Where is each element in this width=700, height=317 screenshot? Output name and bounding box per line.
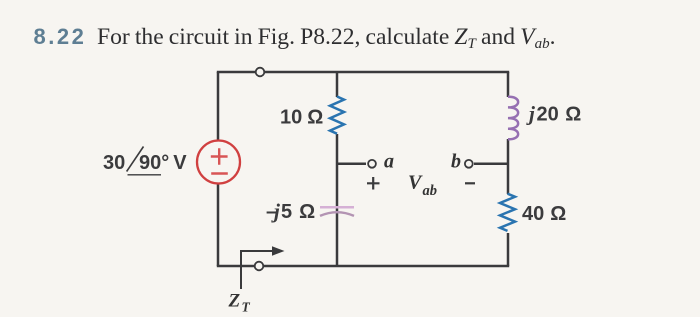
wire right (j20ohm / 40ohm branch) xyxy=(507,72,510,266)
inductor j20ohm xyxy=(508,97,518,139)
terminal node (bottom) xyxy=(255,262,264,271)
wire stub from node b xyxy=(474,163,508,166)
title text: 8.22 For the circuit in Fig. P8.22, calculate ZT and Vab. xyxy=(34,24,556,52)
wire left (source branch) xyxy=(217,72,220,266)
polarity - at node b xyxy=(465,182,475,184)
svg-text:Z: Z xyxy=(228,291,241,312)
svg-text:10 Ω: 10 Ω xyxy=(280,107,323,129)
node a terminal xyxy=(368,160,376,168)
svg-text:40 Ω: 40 Ω xyxy=(522,203,566,225)
wire bottom (return node) xyxy=(217,265,509,268)
svg-text:a: a xyxy=(384,151,394,173)
wire middle (10ohm / -j5ohm branch) xyxy=(336,72,339,266)
svg-text:V: V xyxy=(408,172,423,194)
voltage source VS 30&#8736;90&#176; V xyxy=(197,141,240,184)
ZT arrow (input impedance) xyxy=(241,246,285,289)
svg-text:For the circuit in Fig. P8.22,: For the circuit in Fig. P8.22, calculate… xyxy=(97,24,555,52)
svg-text:ab: ab xyxy=(423,183,438,199)
svg-text:T: T xyxy=(242,300,251,315)
polarity + at node a xyxy=(367,177,380,190)
resistor 40ohm xyxy=(500,194,515,231)
svg-text:90° V: 90° V xyxy=(139,152,187,174)
svg-text:5 Ω: 5 Ω xyxy=(281,201,315,223)
svg-text:b: b xyxy=(451,151,461,173)
label 30&#8736;90&#176; V xyxy=(103,147,187,175)
capacitor -j5ohm xyxy=(320,207,354,216)
svg-text:20 Ω: 20 Ω xyxy=(537,104,582,126)
resistor 10ohm xyxy=(330,97,344,134)
svg-text:8.22: 8.22 xyxy=(34,24,87,49)
wire top (node from source to right branch) xyxy=(217,71,509,74)
terminal node (top) xyxy=(256,68,265,77)
wire stub to node a xyxy=(337,163,366,166)
svg-text:30: 30 xyxy=(103,152,125,174)
node b terminal xyxy=(465,160,473,168)
